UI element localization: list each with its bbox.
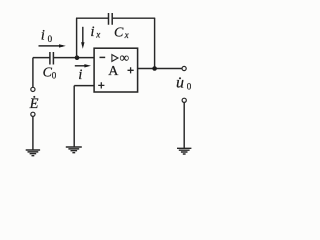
wire E lower to ground bbox=[32, 117, 34, 150]
op-amp A box bbox=[94, 48, 138, 92]
wire feedback top left segment bbox=[76, 17, 108, 19]
capacitor Cx bbox=[109, 13, 113, 25]
label i0 bbox=[41, 27, 53, 43]
ground right bbox=[177, 148, 191, 154]
terminal lower right bbox=[182, 98, 186, 102]
wire left branch vertical bbox=[32, 58, 34, 87]
svg-text:A: A bbox=[108, 64, 119, 79]
ground left bbox=[26, 150, 40, 156]
svg-text:E: E bbox=[29, 96, 39, 112]
terminal uo bbox=[182, 66, 186, 70]
svg-text:x: x bbox=[95, 29, 100, 39]
svg-text:0: 0 bbox=[48, 34, 53, 44]
svg-text:i: i bbox=[41, 27, 45, 43]
wire feedback top right segment bbox=[112, 17, 155, 19]
terminal E lower bbox=[31, 112, 35, 116]
label I bbox=[78, 67, 82, 83]
label uo bbox=[176, 75, 192, 92]
node input junction bbox=[75, 55, 80, 60]
label op-amp A bbox=[108, 64, 119, 79]
ground middle bbox=[66, 147, 82, 153]
label E source bbox=[29, 96, 39, 112]
wire feedback right vertical bbox=[154, 18, 156, 68]
arrow ix bbox=[81, 27, 84, 49]
label op-amp plus input bbox=[98, 82, 104, 88]
svg-text:u: u bbox=[176, 75, 184, 92]
wire feedback left vertical bbox=[76, 18, 78, 57]
svg-text:0: 0 bbox=[187, 82, 192, 92]
label C0 bbox=[43, 65, 57, 80]
terminal E upper bbox=[31, 87, 35, 91]
svg-text:C: C bbox=[114, 26, 124, 41]
svg-text:i: i bbox=[78, 67, 82, 83]
label op-amp minus input bbox=[100, 56, 106, 58]
label op-amp plus output bbox=[128, 67, 134, 73]
arrow I bbox=[75, 64, 91, 67]
svg-text:0: 0 bbox=[52, 71, 57, 81]
svg-text:i: i bbox=[90, 24, 94, 40]
wire output bbox=[138, 68, 182, 70]
label op-amp infinity bbox=[120, 50, 130, 65]
svg-text:∞: ∞ bbox=[120, 50, 130, 65]
label Cx bbox=[114, 26, 129, 41]
svg-text:x: x bbox=[124, 30, 129, 40]
wire op-amp plus input to ground branch bbox=[74, 86, 94, 147]
label ix bbox=[90, 24, 100, 40]
op-amp gain triangle bbox=[112, 55, 118, 62]
wire main input horizontal bbox=[33, 57, 94, 59]
wire lower right to ground bbox=[183, 103, 185, 149]
capacitor C0 bbox=[50, 52, 54, 65]
node output junction bbox=[152, 66, 157, 71]
arrow i0 bbox=[39, 44, 66, 47]
